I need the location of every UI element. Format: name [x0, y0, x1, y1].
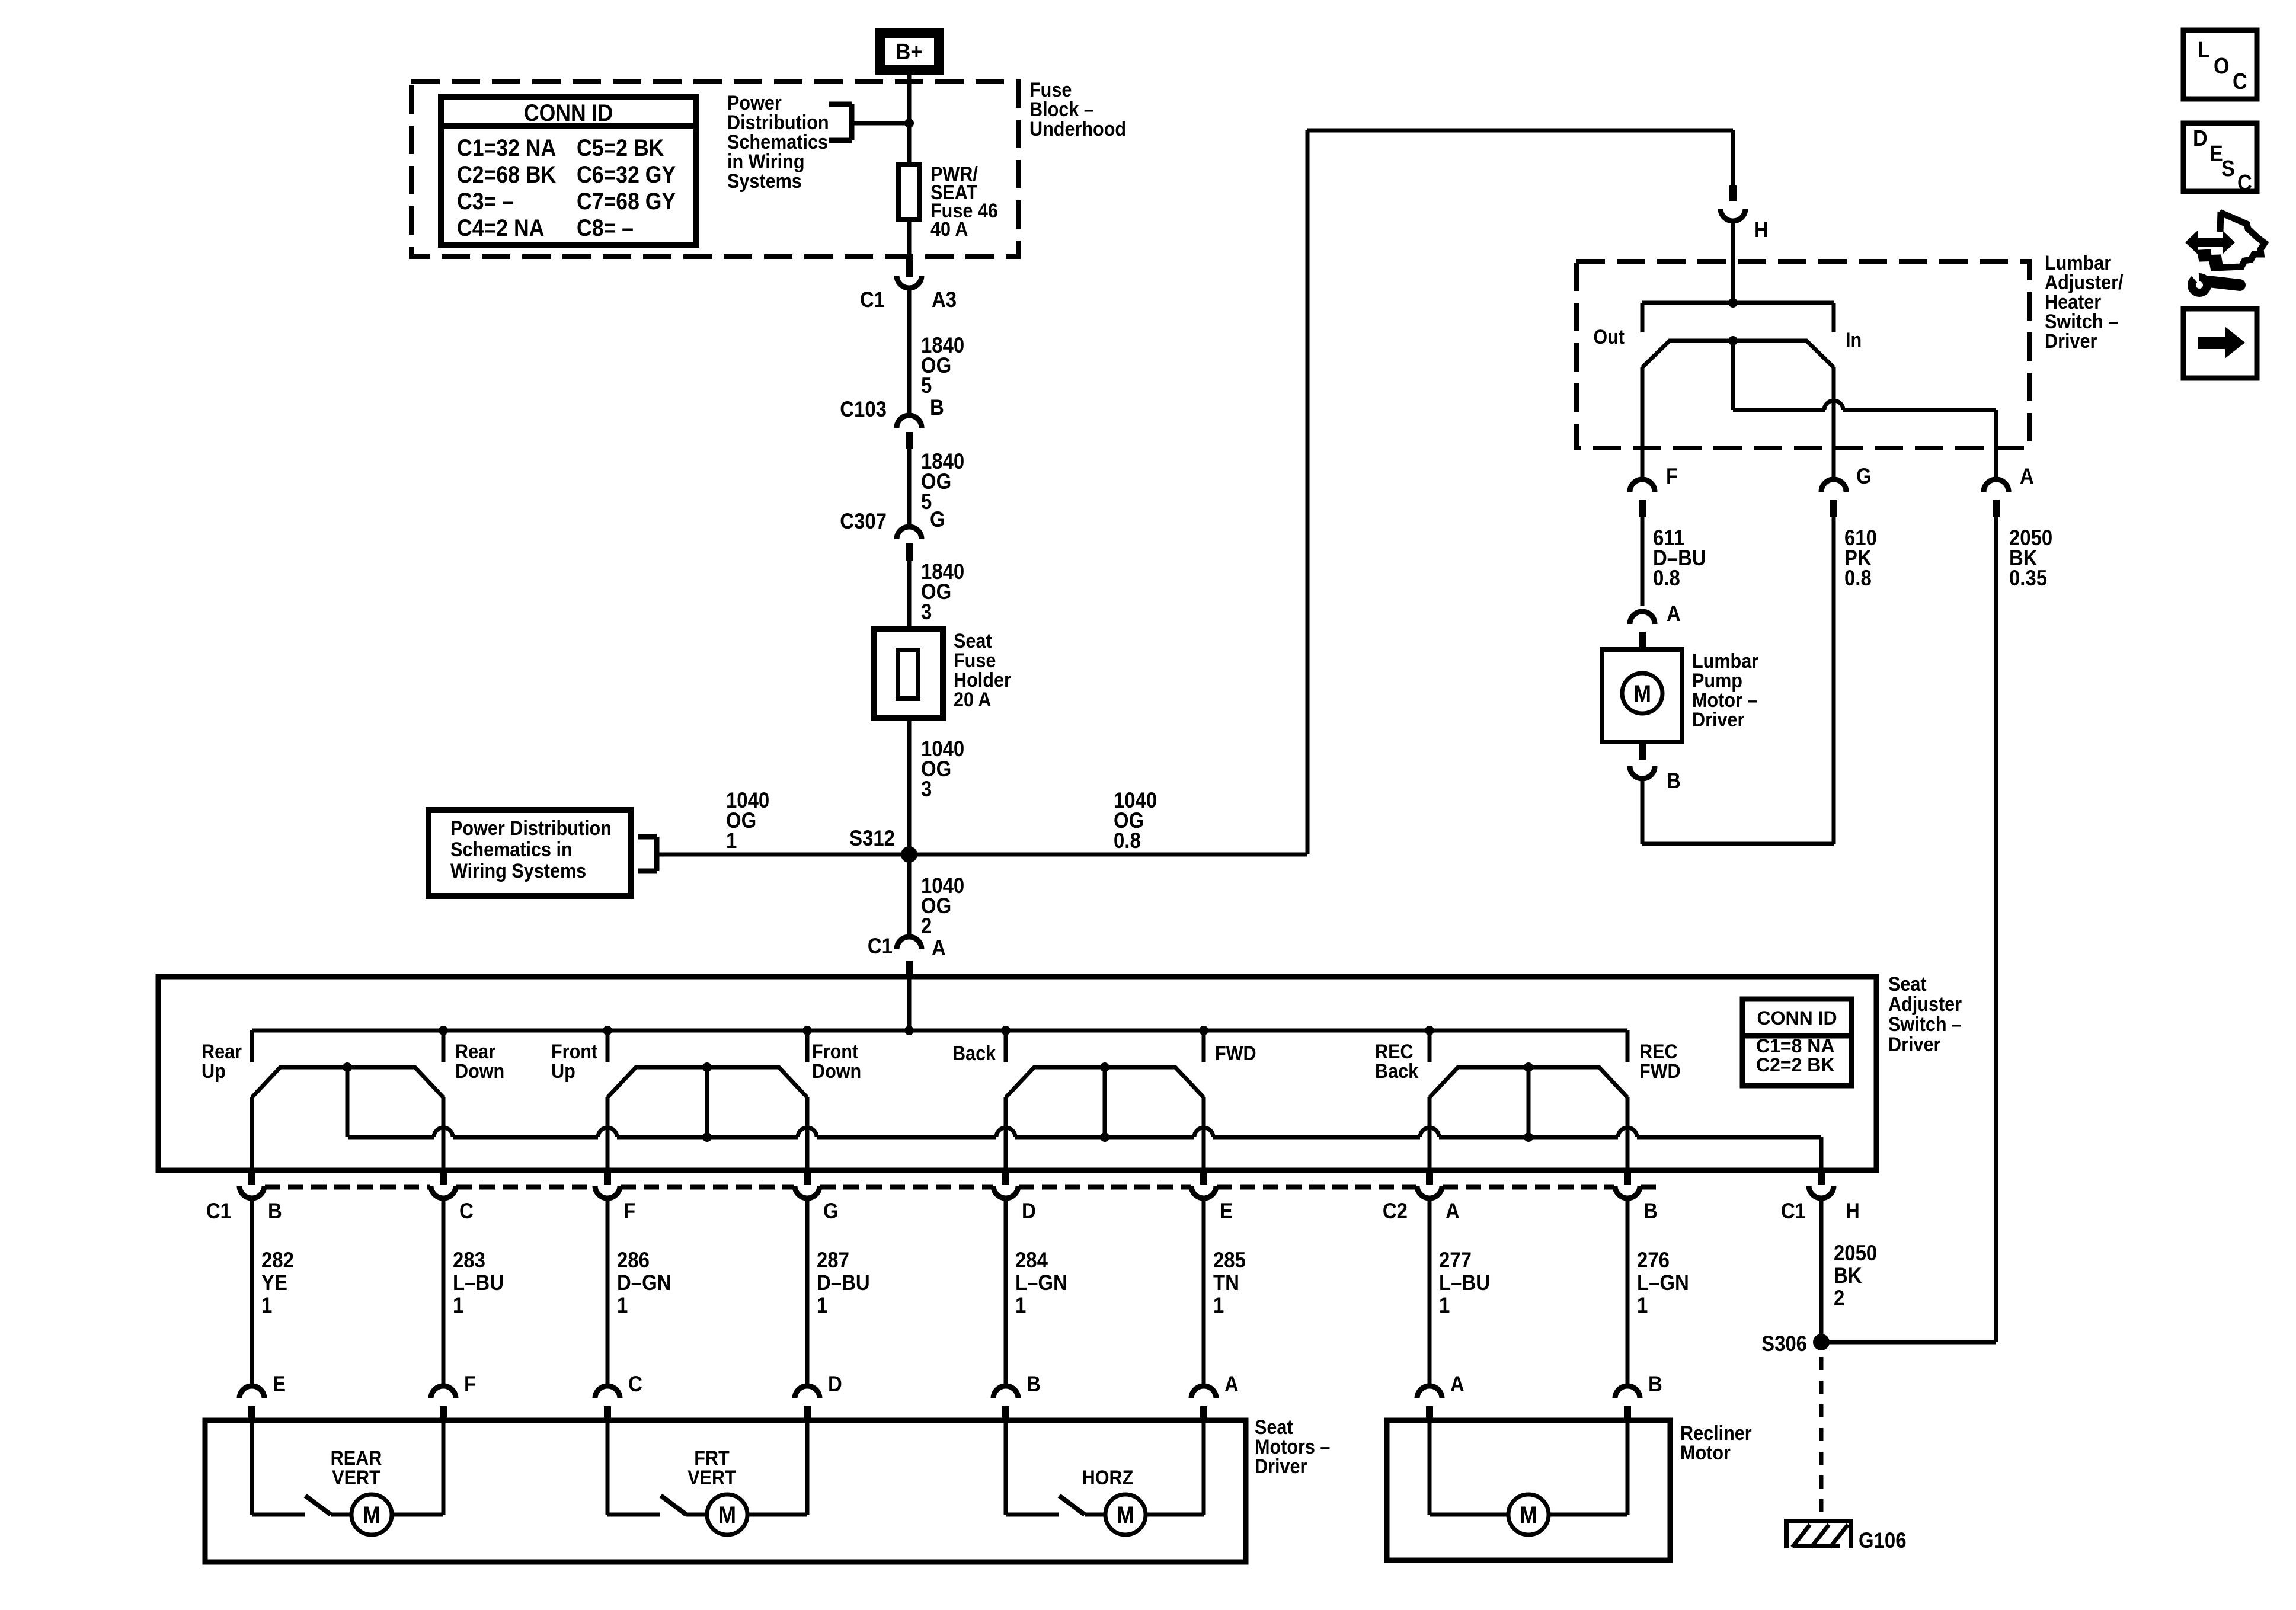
- svg-text:0.35: 0.35: [2009, 566, 2047, 590]
- svg-text:M: M: [1117, 1502, 1134, 1528]
- svg-text:TN: TN: [1213, 1270, 1239, 1295]
- svg-text:C1: C1: [206, 1199, 231, 1223]
- svg-text:A: A: [932, 936, 946, 960]
- svg-text:Motor: Motor: [1680, 1442, 1731, 1464]
- svg-text:L–BU: L–BU: [453, 1270, 504, 1295]
- svg-text:D: D: [2193, 125, 2208, 151]
- svg-text:C8= –: C8= –: [577, 215, 634, 241]
- svg-text:Down: Down: [812, 1060, 861, 1083]
- svg-text:C1=8 NA: C1=8 NA: [1756, 1035, 1835, 1057]
- svg-text:1: 1: [1015, 1293, 1026, 1317]
- svg-text:Out: Out: [1593, 326, 1625, 348]
- svg-text:M: M: [1520, 1502, 1537, 1528]
- svg-text:G: G: [823, 1199, 839, 1223]
- svg-text:D: D: [828, 1372, 842, 1396]
- svg-text:Adjuster: Adjuster: [1888, 993, 1962, 1016]
- svg-text:2: 2: [1834, 1286, 1844, 1310]
- svg-text:L–BU: L–BU: [1439, 1270, 1490, 1295]
- svg-text:Driver: Driver: [1692, 709, 1745, 731]
- svg-text:1: 1: [1637, 1293, 1648, 1317]
- svg-text:A: A: [1446, 1199, 1460, 1223]
- svg-text:YE: YE: [261, 1270, 287, 1295]
- svg-text:BK: BK: [1834, 1263, 1862, 1288]
- svg-text:VERT: VERT: [332, 1467, 380, 1489]
- svg-text:1: 1: [817, 1293, 827, 1317]
- svg-text:F: F: [1666, 464, 1678, 488]
- svg-text:S: S: [2221, 155, 2235, 181]
- svg-text:C: C: [2233, 68, 2247, 94]
- svg-text:B: B: [1643, 1199, 1658, 1223]
- svg-text:1: 1: [617, 1293, 628, 1317]
- svg-text:Driver: Driver: [1255, 1455, 1307, 1478]
- svg-text:C: C: [459, 1199, 474, 1223]
- svg-text:C2=2 BK: C2=2 BK: [1756, 1054, 1835, 1076]
- svg-text:E: E: [1220, 1199, 1233, 1223]
- svg-text:A: A: [2020, 464, 2034, 488]
- svg-text:A: A: [1224, 1372, 1239, 1396]
- svg-text:B+: B+: [896, 39, 923, 64]
- svg-text:L–GN: L–GN: [1637, 1270, 1689, 1295]
- svg-text:A3: A3: [932, 287, 957, 312]
- svg-text:CONN ID: CONN ID: [524, 100, 613, 126]
- svg-text:H: H: [1846, 1199, 1860, 1223]
- svg-text:C1: C1: [860, 287, 885, 312]
- svg-text:FWD: FWD: [1639, 1060, 1681, 1083]
- svg-text:276: 276: [1637, 1248, 1670, 1272]
- svg-text:M: M: [363, 1502, 380, 1528]
- svg-text:40 A: 40 A: [930, 218, 968, 241]
- svg-text:B: B: [1648, 1372, 1662, 1396]
- svg-text:3: 3: [921, 777, 932, 801]
- svg-text:F: F: [464, 1372, 476, 1396]
- svg-text:G: G: [1856, 464, 1872, 488]
- svg-text:Switch –: Switch –: [1888, 1013, 1962, 1036]
- svg-text:CONN ID: CONN ID: [1757, 1007, 1837, 1029]
- svg-text:VERT: VERT: [687, 1467, 736, 1489]
- svg-text:B: B: [268, 1199, 282, 1223]
- svg-text:285: 285: [1213, 1248, 1246, 1272]
- svg-text:1: 1: [453, 1293, 463, 1317]
- svg-text:G106: G106: [1859, 1528, 1907, 1553]
- svg-text:B: B: [930, 395, 944, 420]
- svg-text:283: 283: [453, 1248, 485, 1272]
- svg-text:3: 3: [921, 600, 932, 624]
- svg-text:Systems: Systems: [727, 170, 802, 193]
- svg-text:1: 1: [1439, 1293, 1450, 1317]
- svg-text:FWD: FWD: [1215, 1042, 1256, 1065]
- svg-text:C2=68 BK: C2=68 BK: [457, 162, 556, 188]
- svg-text:287: 287: [817, 1248, 849, 1272]
- svg-text:O: O: [2214, 53, 2230, 78]
- svg-text:Wiring Systems: Wiring Systems: [450, 860, 586, 882]
- svg-text:5: 5: [921, 373, 932, 398]
- svg-text:1: 1: [726, 828, 737, 853]
- svg-text:H: H: [1754, 217, 1769, 242]
- svg-text:D–GN: D–GN: [617, 1270, 671, 1295]
- svg-text:C7=68 GY: C7=68 GY: [577, 188, 676, 215]
- svg-text:HORZ: HORZ: [1082, 1467, 1134, 1489]
- svg-text:Up: Up: [551, 1060, 575, 1083]
- svg-text:L–GN: L–GN: [1015, 1270, 1067, 1295]
- svg-text:277: 277: [1439, 1248, 1472, 1272]
- svg-text:0.8: 0.8: [1114, 828, 1141, 853]
- svg-text:B: B: [1667, 769, 1681, 793]
- svg-text:C1=32 NA: C1=32 NA: [457, 135, 556, 161]
- svg-text:C: C: [2237, 169, 2252, 195]
- svg-text:0.8: 0.8: [1653, 566, 1680, 590]
- svg-text:Power Distribution: Power Distribution: [450, 817, 612, 840]
- svg-text:Driver: Driver: [2045, 330, 2097, 353]
- svg-text:In: In: [1846, 329, 1862, 351]
- svg-text:0.8: 0.8: [1844, 566, 1872, 590]
- svg-text:C2: C2: [1383, 1199, 1408, 1223]
- svg-text:C: C: [628, 1372, 642, 1396]
- svg-text:G: G: [930, 507, 945, 532]
- svg-text:282: 282: [261, 1248, 294, 1272]
- svg-text:L: L: [2198, 37, 2210, 62]
- svg-text:2050: 2050: [1834, 1241, 1877, 1265]
- svg-text:Down: Down: [455, 1060, 504, 1083]
- svg-text:C4=2 NA: C4=2 NA: [457, 215, 544, 241]
- svg-text:284: 284: [1015, 1248, 1048, 1272]
- svg-text:1: 1: [261, 1293, 272, 1317]
- svg-text:D–BU: D–BU: [817, 1270, 870, 1295]
- svg-text:C307: C307: [840, 509, 887, 533]
- svg-text:286: 286: [617, 1248, 650, 1272]
- svg-text:Back: Back: [952, 1042, 996, 1065]
- svg-text:2: 2: [921, 914, 932, 938]
- svg-text:Back: Back: [1375, 1060, 1419, 1083]
- svg-text:F: F: [623, 1199, 635, 1223]
- svg-text:S312: S312: [849, 826, 895, 850]
- svg-text:B: B: [1027, 1372, 1041, 1396]
- svg-text:M: M: [718, 1502, 736, 1528]
- svg-text:Underhood: Underhood: [1029, 118, 1126, 140]
- svg-text:S306: S306: [1761, 1331, 1807, 1356]
- svg-text:A: A: [1450, 1372, 1464, 1396]
- svg-text:M: M: [1633, 681, 1651, 707]
- svg-text:E: E: [273, 1372, 286, 1396]
- svg-text:C5=2 BK: C5=2 BK: [577, 135, 664, 161]
- svg-text:C103: C103: [840, 397, 887, 421]
- svg-text:D: D: [1022, 1199, 1036, 1223]
- svg-text:Driver: Driver: [1888, 1033, 1941, 1056]
- svg-text:20 A: 20 A: [954, 689, 991, 711]
- svg-text:A: A: [1667, 601, 1681, 626]
- svg-text:C1: C1: [1781, 1199, 1806, 1223]
- svg-text:Up: Up: [202, 1060, 226, 1083]
- svg-text:1: 1: [1213, 1293, 1224, 1317]
- svg-text:Schematics in: Schematics in: [450, 838, 573, 861]
- svg-text:C3= –: C3= –: [457, 188, 514, 215]
- svg-text:Seat: Seat: [1888, 973, 1927, 996]
- svg-text:C6=32 GY: C6=32 GY: [577, 162, 676, 188]
- svg-text:C1: C1: [868, 934, 893, 958]
